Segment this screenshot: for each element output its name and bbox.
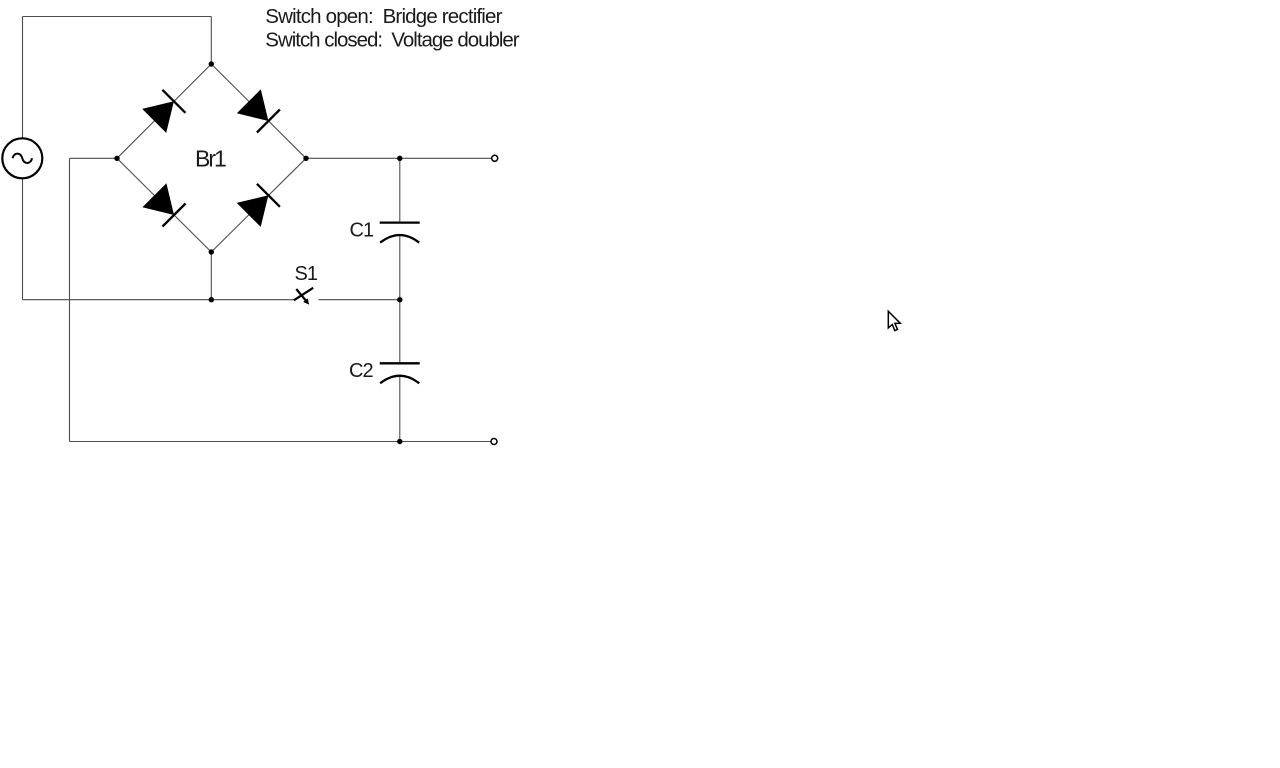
wire C2 top lead [399, 300, 401, 364]
wire bridge top feed [210, 17, 212, 65]
mouse cursor [888, 311, 900, 330]
wire top rail [23, 16, 212, 18]
svg-text:Br1: Br1 [195, 146, 226, 172]
bridge edge top-right [211, 64, 306, 158]
svg-text:Switch open: Bridge rectifier: Switch open: Bridge rectifier [265, 5, 502, 28]
capacitor C1 [380, 223, 420, 243]
svg-text:C2: C2 [349, 360, 373, 382]
junction rail bridge [209, 297, 214, 302]
wire switch to C junction [318, 299, 399, 301]
svg-text:S1: S1 [295, 263, 318, 285]
wire left top vertical [22, 17, 24, 139]
bridge edge bottom-right [211, 158, 306, 252]
wire bridge bottom to rail [210, 252, 212, 300]
wire C1 top lead [399, 158, 401, 222]
wire bridge left to bend [70, 157, 118, 159]
svg-text:Switch closed: Voltage double: Switch closed: Voltage doubler [265, 28, 519, 51]
wire left return vertical [69, 158, 71, 441]
bridge edge bottom-left [117, 158, 211, 252]
wire bottom return rail [70, 441, 400, 443]
junction bridge right [303, 156, 308, 161]
wire bottom output [400, 441, 492, 443]
terminal output plus [492, 155, 498, 161]
junction bridge left [114, 156, 119, 161]
diode D3 bottom-left [142, 183, 185, 226]
terminal output minus [491, 439, 497, 445]
junction bottom rail [397, 439, 402, 444]
junction rail C [397, 297, 402, 302]
wire left bottom vertical [22, 178, 24, 299]
wire bottom rail left segment [23, 299, 295, 301]
svg-text:C1: C1 [350, 219, 374, 241]
diode D2 top-right [237, 89, 280, 132]
bridge edge top-left [117, 64, 211, 158]
wire C2 bottom lead [399, 376, 401, 442]
junction C1 top [397, 156, 402, 161]
junction bridge top [209, 61, 214, 66]
wire top output [306, 157, 492, 159]
capacitor C2 [380, 363, 420, 383]
diode D1 top-left [142, 90, 185, 133]
wire C1 bottom lead [399, 235, 401, 300]
diode D4 bottom-right [237, 184, 280, 227]
junction bridge bottom [209, 249, 214, 254]
ac source V1 [2, 138, 42, 178]
switch S1 [294, 288, 313, 305]
